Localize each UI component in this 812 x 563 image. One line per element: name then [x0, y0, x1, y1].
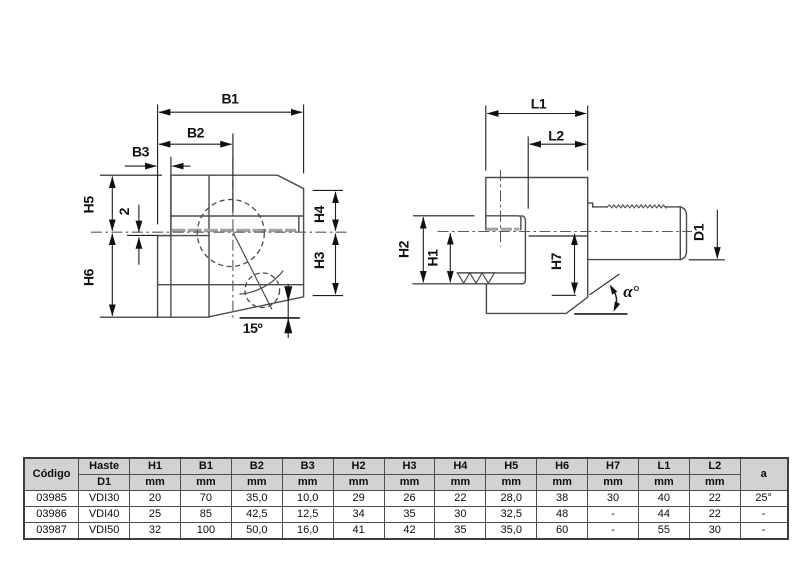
inner vertical line mid: [208, 175, 210, 317]
alpha arc arrowhead bottom: [614, 302, 621, 312]
D1 reference line: [689, 259, 725, 261]
15 deg upper arrowhead: [284, 286, 292, 301]
H5 top reference line: [100, 174, 162, 176]
B3 arrow right: [172, 165, 190, 167]
H6 bottom reference line: [100, 316, 158, 318]
2mm dimension upper arrow: [138, 205, 140, 232]
L1 extension left: [485, 106, 487, 171]
H3 bottom reference line: [313, 295, 343, 297]
slot box left edge: [485, 216, 487, 231]
L2 dimension line: [530, 143, 587, 145]
B3 arrow left: [125, 165, 157, 167]
lower horizontal line: [158, 284, 304, 286]
2mm reference line: [127, 234, 158, 236]
body outline (side view) top/right/bevel/bottom: [486, 178, 588, 314]
shank collar step: [588, 203, 593, 207]
H2 dimension line: [422, 217, 424, 282]
horizontal centerline: [91, 231, 347, 233]
serration triangle 1: [458, 273, 470, 283]
svg-text:H2: H2: [396, 240, 412, 258]
inner vertical line left: [170, 158, 172, 318]
alpha arc arrowhead top: [610, 285, 618, 295]
screw vertical centerline: [500, 170, 502, 247]
15 deg tilt line: [233, 233, 272, 310]
svg-text:2: 2: [116, 207, 132, 215]
svg-text:B2: B2: [187, 125, 205, 141]
serration top line: [458, 272, 526, 274]
data table: [23, 457, 789, 540]
slot right box edge: [298, 216, 300, 232]
body outline (front view): [158, 175, 304, 317]
shank thread zigzag: [607, 205, 665, 208]
alpha arc arrow: [612, 289, 616, 307]
head section boundary: [522, 216, 526, 284]
H7 bottom reference line: [552, 294, 576, 296]
B1 extension right: [303, 105, 305, 174]
L2 extension left: [527, 137, 529, 209]
H4 top reference line: [313, 189, 343, 191]
15 deg dimension line: [287, 284, 289, 338]
bottom line with serration base: [413, 283, 522, 285]
B2 dimension line: [159, 143, 232, 145]
swing arc: [239, 271, 283, 295]
B1 extension left: [157, 105, 159, 225]
H7 dimension line: [574, 234, 576, 294]
svg-text:H7: H7: [548, 252, 564, 270]
shank top line after thread: [666, 206, 681, 208]
H1 dimension line: [449, 233, 451, 282]
svg-text:H6: H6: [81, 268, 97, 286]
shank end cap: [680, 207, 686, 260]
2mm dimension lower arrow: [138, 237, 140, 264]
serration triangle 2: [470, 273, 482, 283]
horizontal centerline (side view): [438, 231, 693, 233]
D1 arrow line: [716, 210, 718, 259]
shank top line: [593, 206, 608, 208]
svg-text:H1: H1: [425, 249, 441, 267]
slot top line: [171, 215, 304, 217]
L1 extension right: [587, 106, 589, 171]
svg-text:α°: α°: [623, 282, 639, 301]
head lower edge line (H7 top): [529, 235, 586, 237]
H4 dimension line: [335, 192, 337, 231]
B1 dimension line: [159, 111, 302, 113]
svg-text:B3: B3: [132, 144, 150, 160]
small dashed circle: [245, 273, 280, 308]
svg-text:B1: B1: [221, 91, 239, 107]
alpha datum line: [574, 313, 627, 315]
svg-text:L2: L2: [548, 128, 564, 144]
slot bottom gray strip: [172, 229, 297, 232]
H3 dimension line: [335, 234, 337, 295]
alpha angled line: [590, 274, 620, 295]
H6 dimension line: [111, 234, 113, 316]
H2 top reference line: [413, 215, 475, 217]
svg-text:D1: D1: [691, 223, 707, 241]
svg-text:H3: H3: [311, 251, 327, 269]
15 deg datum line: [240, 317, 300, 319]
15 deg lower arrowhead: [284, 318, 292, 333]
svg-text:L1: L1: [531, 96, 547, 112]
svg-text:H4: H4: [311, 205, 327, 223]
serration triangle 3: [482, 273, 494, 283]
svg-text:H5: H5: [81, 196, 97, 214]
svg-text:15º: 15º: [243, 320, 263, 336]
slot box gray strip (right view): [487, 228, 520, 231]
B2 extension right: [232, 134, 234, 214]
vertical centerline: [232, 158, 234, 320]
left step edge line: [158, 235, 209, 237]
slot box top line with corner: [486, 216, 521, 230]
H5 dimension line: [111, 177, 113, 231]
big dashed circle: [197, 200, 264, 267]
L1 dimension line: [487, 113, 586, 115]
shank bottom line: [588, 259, 681, 261]
